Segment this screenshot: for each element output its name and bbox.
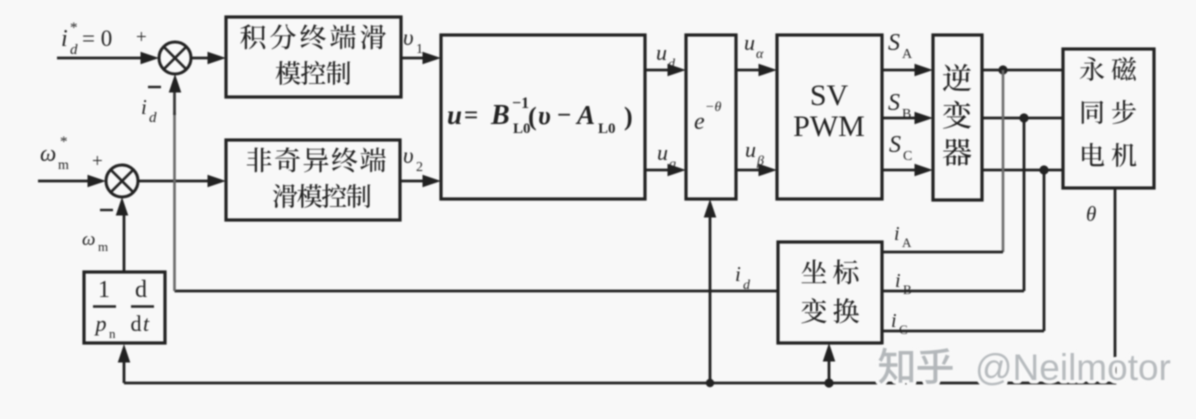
wire i_d feedback horizontal bbox=[175, 290, 779, 293]
svg-text:θ: θ bbox=[1086, 202, 1096, 226]
block: coordinate transform (坐标变换) bbox=[778, 242, 882, 343]
svg-text:B: B bbox=[903, 282, 912, 297]
svg-text:d: d bbox=[135, 277, 147, 303]
svg-text:u: u bbox=[744, 30, 755, 55]
wire i_d feedback vertical up to S1 bbox=[173, 112, 176, 291]
svg-text:d: d bbox=[131, 311, 142, 336]
svg-text:): ) bbox=[624, 102, 633, 131]
svg-text:A: A bbox=[902, 235, 912, 250]
wire i*_d reference into summing junction S1 bbox=[57, 57, 146, 60]
wire phase A current tap down bbox=[1002, 70, 1005, 252]
wire phase C current into transform row bbox=[882, 330, 1044, 333]
block: control law u = B_L0^-1(υ - A_L0) bbox=[441, 35, 645, 199]
wire θ feedback up into coordinate transform bbox=[828, 355, 831, 383]
svg-text:i: i bbox=[894, 223, 900, 245]
svg-text:2: 2 bbox=[416, 160, 423, 175]
minus sign at S2 lower input bbox=[100, 209, 113, 211]
svg-text:−: − bbox=[557, 102, 571, 129]
svg-text:t: t bbox=[143, 311, 150, 336]
summing junction S1 (d-axis current error) bbox=[159, 42, 191, 74]
block: rotation transform e^-jθ bbox=[686, 35, 736, 199]
wire S1 to integral terminal sliding mode block bbox=[191, 57, 213, 60]
wire υ1 from block1 to control-law block bbox=[401, 57, 428, 60]
svg-text:m: m bbox=[58, 158, 69, 173]
svg-text:d: d bbox=[149, 110, 157, 126]
svg-text:e: e bbox=[694, 109, 705, 135]
svg-text:i: i bbox=[141, 95, 147, 119]
wire ω*_m reference into summing junction S2 bbox=[38, 180, 93, 183]
block: non-singular terminal sliding mode control (非奇异终端滑模控制) bbox=[226, 140, 400, 220]
wire u_α to SVPWM bbox=[736, 69, 764, 72]
junction dot phase C current tap bbox=[1039, 165, 1048, 174]
svg-text:d: d bbox=[70, 42, 78, 58]
svg-text:1: 1 bbox=[98, 277, 110, 303]
wire gate signal S_B to inverter bbox=[882, 117, 920, 120]
minus sign at S1 lower input bbox=[148, 86, 161, 88]
wire u_q to rotation block bbox=[645, 169, 673, 172]
svg-text:C: C bbox=[899, 322, 908, 337]
wire S2 to non-singular terminal sliding mode block bbox=[138, 180, 213, 183]
svg-text:(: ( bbox=[528, 102, 537, 131]
wire phase A inverter to motor bbox=[982, 69, 1063, 72]
svg-text:= 0: = 0 bbox=[82, 26, 112, 51]
wire phase C current tap down bbox=[1043, 170, 1046, 331]
svg-text:u: u bbox=[657, 140, 668, 165]
svg-text:PWM: PWM bbox=[793, 110, 865, 143]
wire phase B current tap down bbox=[1023, 118, 1026, 291]
block: inverter (逆变器) bbox=[933, 35, 982, 200]
svg-text:i: i bbox=[61, 26, 68, 52]
block: speed calculation (1/p_n)(d/dt) bbox=[84, 272, 165, 343]
svg-text:*: * bbox=[70, 20, 78, 36]
svg-text:−θ: −θ bbox=[705, 100, 721, 115]
wire phase B current into transform row bbox=[882, 290, 1024, 293]
svg-text:u: u bbox=[745, 137, 756, 162]
block: permanent-magnet synchronous motor (永磁同步电机) bbox=[1063, 49, 1154, 188]
junction dot θ bus at transform tap bbox=[824, 378, 833, 387]
wire phase A current into transform row bbox=[882, 251, 1003, 254]
wire gate signal S_A to inverter bbox=[882, 69, 920, 72]
svg-text:ω: ω bbox=[40, 141, 56, 166]
svg-text:υ: υ bbox=[403, 143, 414, 168]
svg-text:υ: υ bbox=[538, 101, 551, 130]
svg-text:ω: ω bbox=[82, 229, 95, 250]
wire phase B inverter to motor bbox=[982, 117, 1063, 120]
wire ω_m from speed block up to S2 bbox=[123, 208, 126, 271]
watermark 知乎 @Neilmotor bbox=[879, 347, 1171, 388]
summing junction S2 (speed error) bbox=[106, 165, 138, 197]
svg-text:C: C bbox=[903, 149, 912, 164]
svg-text:u: u bbox=[447, 100, 462, 130]
junction dot θ bus at rotation block tap bbox=[706, 379, 714, 387]
block: SV PWM modulator bbox=[777, 35, 882, 199]
svg-text:α: α bbox=[756, 47, 764, 62]
wire θ feedback up into rotation block bbox=[709, 210, 712, 383]
svg-text:A: A bbox=[575, 100, 595, 130]
svg-text:@Neilmotor: @Neilmotor bbox=[975, 347, 1171, 388]
svg-text:S: S bbox=[888, 30, 900, 56]
svg-text:L0: L0 bbox=[598, 121, 616, 137]
wire υ2 from block2 to control-law block bbox=[400, 180, 428, 183]
wire gate signal S_C to inverter bbox=[882, 169, 920, 172]
wire phase C inverter to motor bbox=[982, 169, 1063, 172]
svg-text:1: 1 bbox=[416, 42, 423, 57]
svg-text:p: p bbox=[94, 311, 107, 336]
svg-text:u: u bbox=[656, 40, 667, 65]
wire θ feedback bottom bus bbox=[124, 382, 1115, 385]
svg-text:+: + bbox=[92, 151, 103, 172]
wire u_β to SVPWM bbox=[736, 169, 764, 172]
svg-text:B: B bbox=[490, 100, 510, 131]
svg-text:=: = bbox=[464, 102, 478, 129]
block: integral terminal sliding mode control (积分终端滑模控制) bbox=[226, 17, 401, 97]
svg-text:A: A bbox=[902, 47, 913, 62]
svg-text:i: i bbox=[891, 310, 897, 332]
svg-text:+: + bbox=[136, 27, 147, 48]
wire θ feedback up into speed block bbox=[123, 355, 126, 383]
svg-text:S: S bbox=[888, 90, 900, 116]
svg-text:*: * bbox=[60, 134, 68, 150]
wire u_d to rotation block bbox=[645, 69, 673, 72]
svg-text:−1: −1 bbox=[512, 95, 529, 112]
junction dot phase B current tap bbox=[1019, 113, 1028, 122]
svg-text:S: S bbox=[889, 132, 901, 158]
wire θ feedback from motor down bbox=[1114, 188, 1117, 385]
junction dot phase A current tap bbox=[998, 65, 1007, 74]
svg-text:B: B bbox=[902, 107, 911, 122]
svg-text:SV: SV bbox=[810, 79, 849, 112]
svg-text:i: i bbox=[735, 262, 741, 286]
svg-text:υ: υ bbox=[403, 25, 414, 50]
svg-text:m: m bbox=[98, 239, 108, 254]
svg-text:n: n bbox=[109, 326, 116, 341]
svg-text:i: i bbox=[895, 270, 901, 292]
